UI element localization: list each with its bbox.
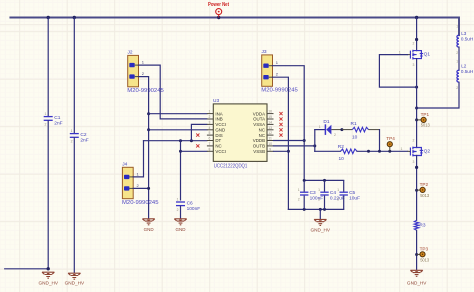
svg-text:12: 12: [268, 131, 272, 135]
wire: C6 to GND: [180, 206, 182, 218]
svg-text:2: 2: [137, 183, 140, 188]
svg-text:3: 3: [209, 121, 211, 125]
svg-text:5013: 5013: [421, 123, 431, 128]
capacitor C6: [176, 202, 185, 206]
wire: C1 to GND_HV: [47, 121, 49, 269]
node: J4 pin2 junction: [147, 187, 150, 190]
svg-text:D1: D1: [323, 119, 329, 125]
svg-text:2nF: 2nF: [80, 138, 88, 144]
svg-text:J4: J4: [122, 162, 127, 168]
svg-text:M20-9990245: M20-9990245: [122, 200, 159, 206]
wire: rail to Q1 drain: [416, 18, 418, 51]
inductor L3: [457, 35, 459, 47]
capacitor C3: [300, 180, 308, 209]
wire: Q1 source to Q2 drain: [416, 59, 418, 148]
svg-text:0.5uH: 0.5uH: [461, 36, 473, 41]
svg-text:J3: J3: [262, 49, 267, 55]
svg-text:GND_HV: GND_HV: [407, 280, 427, 285]
svg-text:1: 1: [71, 129, 73, 133]
svg-text:11: 11: [268, 137, 272, 141]
svg-text:9: 9: [269, 147, 271, 151]
svg-text:100nF: 100nF: [310, 196, 324, 202]
svg-text:2: 2: [413, 41, 415, 45]
svg-text:GND: GND: [144, 227, 155, 232]
power port GND_HV (Q2 source): [410, 270, 422, 276]
svg-text:NC: NC: [259, 133, 265, 138]
svg-text:2: 2: [209, 115, 211, 119]
wire: C2 to GND_HV: [73, 138, 75, 273]
U3 pins right side 16-9: [267, 114, 274, 152]
wire: down to C6: [180, 141, 182, 200]
Q2 gate pin: [408, 150, 411, 152]
svg-text:1: 1: [401, 147, 403, 151]
wire: up to U3 VCCI pin3: [191, 124, 207, 140]
node: Q1 drain dot: [415, 38, 418, 41]
svg-text:TP2: TP2: [420, 182, 429, 187]
node: R1 joins gate line: [378, 150, 381, 153]
test point TP4: [387, 142, 392, 152]
svg-text:NC: NC: [215, 144, 221, 149]
capacitor C4: [320, 180, 328, 209]
svg-text:U3: U3: [213, 98, 219, 104]
svg-text:GND: GND: [215, 128, 225, 133]
svg-text:VDDA: VDDA: [253, 111, 265, 116]
svg-text:15: 15: [268, 115, 272, 119]
op-amp / gate driver U3 body: [213, 104, 267, 161]
svg-text:13: 13: [268, 126, 272, 130]
wire: U3 VSSB row: [274, 150, 289, 152]
svg-text:6: 6: [209, 137, 211, 141]
svg-text:1: 1: [177, 198, 179, 202]
svg-text:10: 10: [352, 134, 358, 140]
power net marker: [216, 9, 222, 18]
svg-text:1: 1: [209, 110, 211, 114]
wire: J3 pin1 down to VDDB/cap rail: [273, 66, 305, 181]
node: gate line junction a: [367, 150, 370, 153]
svg-text:1: 1: [456, 60, 458, 64]
U3 pins left side 1-8: [207, 114, 213, 152]
svg-text:4: 4: [209, 126, 211, 130]
svg-text:VSSB: VSSB: [253, 149, 265, 154]
Q1 gate pin: [408, 54, 411, 56]
svg-text:2nF: 2nF: [54, 121, 62, 127]
svg-text:1: 1: [399, 50, 401, 54]
node: gate loop joins source: [415, 86, 418, 89]
transistor Q2: [410, 147, 423, 157]
svg-text:TP4: TP4: [386, 136, 395, 141]
node: DT / VCCI branch: [190, 139, 193, 142]
svg-text:10: 10: [339, 156, 345, 162]
node: OUTB split: [313, 144, 316, 147]
svg-text:1: 1: [276, 60, 279, 65]
svg-text:100nF: 100nF: [187, 206, 201, 212]
wire: J4 pin2 to GND net: [133, 187, 148, 189]
svg-text:C3: C3: [310, 190, 316, 196]
node: Q2 source dot: [415, 166, 418, 169]
connector J2: [128, 55, 139, 86]
svg-text:Q1: Q1: [424, 51, 431, 57]
svg-text:TP3: TP3: [420, 247, 429, 252]
node: VSSB junction: [287, 150, 290, 153]
wire: to U3 INA: [149, 113, 207, 115]
svg-text:2: 2: [71, 140, 73, 144]
svg-text:3: 3: [413, 160, 415, 164]
wire: U3 VDDB row: [274, 140, 305, 142]
wire: rail to C1: [47, 18, 49, 116]
node: VCCI pin8 tap: [179, 150, 182, 153]
svg-text:VCCI: VCCI: [215, 122, 226, 127]
svg-text:C2: C2: [80, 132, 86, 138]
test point TP2: [417, 187, 426, 192]
wire: R1 to gate line: [379, 130, 381, 152]
wire: bottom-left stub: [5, 268, 49, 270]
svg-text:2: 2: [456, 51, 458, 55]
svg-text:5013: 5013: [420, 257, 430, 262]
wire: J3 pin2 down to VSSB/cap return: [273, 77, 289, 209]
wire: inductor return to switch node: [417, 82, 459, 108]
svg-text:2: 2: [337, 197, 339, 201]
svg-text:1: 1: [45, 112, 47, 116]
wire: stub to GND_HV: [319, 209, 321, 219]
svg-text:2: 2: [413, 138, 415, 142]
node: GND pin tap: [147, 128, 150, 131]
node: C4 bottom: [323, 208, 326, 211]
node: top rail left: [303, 179, 306, 182]
wire: U3 OUTB row: [274, 145, 315, 147]
node: TP3 tap: [415, 253, 418, 256]
svg-text:10: 10: [268, 142, 272, 146]
wire: Q1 gate-source loop: [379, 55, 416, 88]
power port GND (J2/J4 net): [142, 219, 154, 225]
node: GND_HV stub: [319, 208, 322, 211]
svg-text:C6: C6: [187, 201, 193, 207]
svg-text:1: 1: [337, 188, 339, 192]
no-ERC marks (red x): [196, 112, 282, 148]
svg-text:NC: NC: [259, 128, 265, 133]
svg-text:2: 2: [142, 71, 145, 76]
wire: Q2 source down: [416, 156, 418, 221]
capacitor C5: [340, 180, 348, 209]
wire: to D1 cathode: [315, 129, 325, 131]
U3 pin names: [215, 111, 265, 154]
node: DT / C6 branch: [179, 139, 182, 142]
svg-text:OUTA: OUTA: [253, 117, 265, 122]
inductor L2: [457, 70, 459, 82]
wire: J4 pin1 up to DT row: [133, 141, 143, 177]
test point TP3: [417, 252, 426, 257]
svg-text:2: 2: [276, 72, 279, 77]
svg-text:R1: R1: [351, 121, 357, 127]
node: VDDB junction: [303, 139, 306, 142]
svg-text:2: 2: [456, 86, 458, 90]
svg-text:C1: C1: [54, 115, 60, 121]
svg-text:INA: INA: [215, 111, 222, 116]
connector J3: [262, 55, 273, 86]
transistor Q1: [410, 50, 423, 60]
capacitor C2: [70, 134, 79, 138]
wire: OUTB to R2: [315, 150, 341, 152]
node: rail / C1 junction: [47, 16, 50, 19]
wire: to U3 VCCI pin8: [181, 150, 207, 152]
svg-text:7: 7: [209, 142, 211, 146]
svg-text:C4: C4: [330, 190, 336, 196]
svg-text:10uF: 10uF: [349, 196, 360, 202]
svg-text:VCCI: VCCI: [215, 149, 226, 154]
svg-text:UCC21222QDQ1: UCC21222QDQ1: [214, 163, 248, 169]
svg-text:L3: L3: [461, 31, 467, 36]
svg-text:R2: R2: [338, 144, 344, 150]
svg-text:8: 8: [209, 147, 211, 151]
svg-text:TP1: TP1: [421, 112, 430, 117]
node: TP1 tap: [415, 118, 418, 121]
wire: top power rail: [10, 18, 459, 36]
capacitor C1: [44, 117, 53, 121]
svg-text:M20-9990245: M20-9990245: [261, 87, 298, 93]
wire: R3 to GND_HV: [416, 230, 418, 269]
power port GND_HV (cap bank): [314, 219, 326, 225]
node: rail / power-net marker: [217, 16, 220, 19]
svg-text:L2: L2: [461, 63, 467, 68]
resistor R1: [342, 127, 380, 132]
svg-text:VDDB: VDDB: [253, 138, 265, 143]
svg-text:Power Net: Power Net: [208, 2, 229, 8]
wire: to U3 GND: [149, 129, 207, 131]
node: INA tap: [147, 112, 150, 115]
svg-text:14: 14: [268, 121, 272, 125]
node: stub / C1 ground junction: [47, 267, 50, 270]
node: C4 top: [323, 179, 326, 182]
svg-text:C5: C5: [349, 190, 355, 196]
power port GND (C6): [174, 219, 186, 225]
node: TP4 tap: [388, 150, 391, 153]
svg-text:GND_HV: GND_HV: [65, 280, 85, 285]
svg-text:2: 2: [334, 133, 336, 137]
svg-text:1: 1: [319, 125, 321, 129]
svg-text:INB: INB: [215, 117, 222, 122]
resistor R3: [414, 220, 419, 230]
node: rail / C2 junction: [73, 16, 76, 19]
svg-text:5013: 5013: [420, 193, 430, 198]
svg-text:16: 16: [268, 110, 272, 114]
svg-text:GND_HV: GND_HV: [39, 280, 59, 285]
svg-text:OUTB: OUTB: [253, 144, 265, 149]
svg-text:0.5uH: 0.5uH: [461, 69, 473, 74]
svg-text:1: 1: [318, 188, 320, 192]
svg-text:2: 2: [298, 197, 300, 201]
power port GND_HV (C2): [68, 273, 80, 279]
wire: rail to C2: [73, 18, 75, 133]
U3 pin numbers: [209, 110, 273, 152]
svg-text:3: 3: [413, 63, 415, 67]
node: C3 bottom: [303, 208, 306, 211]
power port GND_HV (C1): [42, 272, 54, 278]
wire: J2 pin2 down to GND: [139, 77, 149, 219]
svg-text:1: 1: [142, 60, 145, 65]
svg-text:DT: DT: [215, 138, 221, 143]
svg-text:VSSA: VSSA: [253, 122, 265, 127]
node: TP2 tap: [415, 189, 418, 192]
wire: R2 to Q2 gate: [357, 150, 408, 152]
svg-text:2: 2: [318, 197, 320, 201]
svg-text:J2: J2: [128, 50, 133, 56]
svg-text:Q2: Q2: [424, 148, 431, 154]
svg-text:5: 5: [209, 131, 211, 135]
svg-text:GND: GND: [176, 227, 187, 232]
svg-text:M20-9990245: M20-9990245: [127, 88, 164, 94]
diode D1: [325, 124, 342, 135]
node: rail / Q1 drain junction: [415, 16, 418, 19]
node: D1/R1 junction: [340, 128, 343, 131]
svg-text:2: 2: [177, 208, 179, 212]
svg-text:GND_HV: GND_HV: [311, 228, 331, 233]
wire: OUTB branch vertical: [314, 130, 316, 152]
wire: J2 pin1 to U3 INB: [139, 65, 207, 119]
node: inductor return junction: [415, 107, 418, 110]
wire: L3 to L2: [458, 47, 460, 70]
wire: DT row horizontal: [144, 140, 207, 142]
svg-text:DIS: DIS: [215, 133, 222, 138]
connector J4: [122, 167, 133, 198]
svg-text:1: 1: [298, 188, 300, 192]
test point TP1: [417, 117, 427, 122]
svg-text:1: 1: [456, 25, 458, 29]
wire: cap bank top rail: [304, 179, 344, 181]
svg-text:R3: R3: [419, 222, 425, 228]
svg-text:1: 1: [137, 171, 140, 176]
wire: cap bank bottom rail: [288, 208, 343, 210]
svg-text:2: 2: [45, 123, 47, 127]
